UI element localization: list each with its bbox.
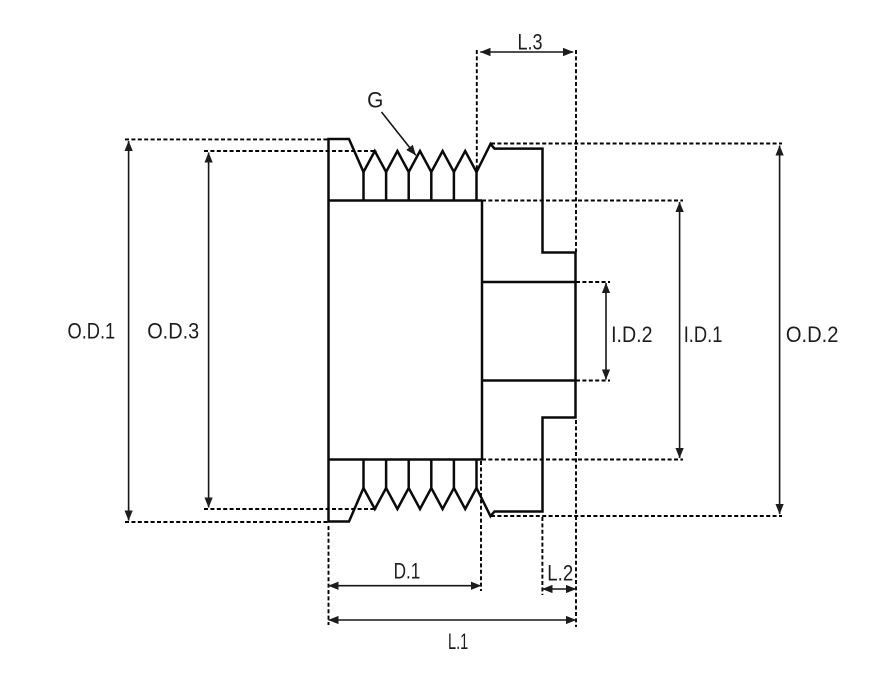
- svg-text:D.1: D.1: [394, 558, 421, 583]
- bore top edge: [482, 281, 576, 284]
- dimension L.1: [329, 620, 577, 654]
- extension line O.D.2 top: [491, 143, 782, 145]
- groove rib stems bottom: [364, 460, 477, 489]
- dimension L.3: [480, 29, 573, 54]
- extension line I.D.2 bottom: [576, 380, 610, 382]
- pulley outer profile: [329, 139, 576, 522]
- groove rib stems top: [364, 172, 477, 201]
- groove base line bottom: [329, 458, 483, 461]
- svg-text:I.D.1: I.D.1: [684, 322, 723, 347]
- bore bottom edge: [482, 379, 576, 382]
- svg-text:O.D.3: O.D.3: [147, 318, 199, 343]
- dimension O.D.3: [147, 153, 208, 508]
- extension line L.2 left: [541, 517, 543, 595]
- extension line L.2 L.1 right lower: [575, 420, 577, 627]
- svg-text:L.3: L.3: [518, 29, 543, 54]
- extension line D.1 L.1 left: [328, 526, 330, 625]
- extension line O.D.3 bottom: [204, 508, 377, 510]
- svg-text:O.D.1: O.D.1: [68, 318, 116, 343]
- dimension O.D.1: [68, 141, 129, 521]
- dimension D.1: [329, 558, 482, 585]
- svg-text:I.D.2: I.D.2: [611, 322, 652, 347]
- dimension I.D.1: [680, 202, 723, 458]
- extension line L.3 left: [476, 50, 478, 172]
- svg-text:L.1: L.1: [448, 629, 468, 654]
- extension line I.D.1 top: [482, 200, 683, 202]
- extension line O.D.1 bottom: [125, 521, 329, 523]
- svg-text:O.D.2: O.D.2: [786, 322, 839, 347]
- svg-text:G: G: [367, 88, 383, 113]
- extension line L.3 L.2 L.1 right upper: [575, 50, 577, 252]
- svg-text:L.2: L.2: [547, 561, 573, 586]
- dimension I.D.2: [606, 283, 653, 380]
- leader G: [367, 88, 416, 156]
- extension line I.D.1 bottom: [482, 459, 683, 461]
- extension line O.D.1 top: [125, 138, 329, 140]
- dimension L.2: [542, 561, 576, 590]
- extension line D.1 right: [480, 461, 482, 591]
- groove base line top: [329, 199, 483, 202]
- body right edge: [481, 201, 484, 460]
- dimension O.D.2: [780, 146, 839, 515]
- extension line O.D.3 top: [204, 150, 377, 152]
- extension line I.D.2 top: [576, 281, 610, 283]
- extension line O.D.2 bottom: [491, 515, 782, 517]
